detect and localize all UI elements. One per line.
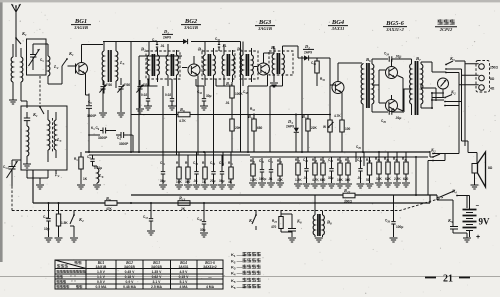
- capacitor C8: [86, 94, 97, 119]
- coil L6: [93, 166, 104, 189]
- svg-text:.01: .01: [268, 177, 273, 181]
- wire osc: [89, 131, 133, 153]
- bank1 R8b: [227, 161, 235, 189]
- battery 9V: [463, 196, 491, 242]
- wire AGC line: [131, 114, 330, 116]
- label BG3: [255, 19, 275, 31]
- svg-text:BG2: BG2: [184, 18, 198, 25]
- svg-text:30μ: 30μ: [328, 176, 334, 180]
- svg-text:″ ″: ″ ″: [70, 275, 76, 279]
- ground under T1: [9, 100, 17, 104]
- bank4 R26: [402, 152, 410, 187]
- svg-text:30μ: 30μ: [206, 94, 212, 98]
- detector transformer B5: [269, 46, 298, 80]
- bank3 C23: [328, 157, 336, 188]
- wire verticals mid: [131, 42, 364, 167]
- svg-text:4K: 4K: [228, 180, 233, 184]
- tuning gang C1-2: [3, 160, 18, 186]
- svg-text:0.45 V: 0.45 V: [125, 270, 136, 274]
- svg-text:0.15 V: 0.15 V: [179, 275, 190, 279]
- capacitor C16: [43, 203, 53, 242]
- bank1 C14: [218, 161, 226, 189]
- bank3 R19: [319, 157, 327, 188]
- IF transformer B2: [146, 42, 180, 87]
- svg-text:0.02: 0.02: [165, 93, 171, 97]
- bank1 C12: [193, 161, 201, 189]
- transistor BG4: [330, 63, 362, 120]
- svg-text:21: 21: [443, 274, 453, 285]
- svg-text:.01: .01: [357, 176, 362, 180]
- resistor R16e: [340, 120, 351, 152]
- svg-text:1.2K: 1.2K: [295, 178, 302, 182]
- svg-text:2AP9: 2AP9: [304, 51, 312, 55]
- legend K3: [231, 265, 261, 271]
- svg-text:.01μ: .01μ: [395, 116, 401, 120]
- legend K5: [231, 278, 261, 284]
- capacitor C7: [87, 155, 102, 170]
- resistor R11: [315, 58, 319, 86]
- bank1 R5: [175, 161, 183, 189]
- svg-text:1K: 1K: [202, 180, 207, 184]
- diode D2: [298, 46, 330, 61]
- svg-text:4 MA: 4 MA: [206, 285, 215, 289]
- resistor R9h: [105, 196, 117, 211]
- svg-text:0.5 V: 0.5 V: [97, 280, 106, 284]
- diode D1: [183, 39, 188, 44]
- svg-text:100μ: 100μ: [396, 225, 403, 229]
- svg-text:22K: 22K: [311, 126, 318, 130]
- svg-text:0.18 V: 0.18 V: [125, 275, 136, 279]
- bank4 R23: [375, 152, 383, 187]
- resistor R12: [248, 114, 263, 152]
- svg-text:3AG1B: 3AG1B: [257, 26, 272, 31]
- transistor BG6: [379, 85, 403, 112]
- switch K2 lower: [428, 148, 459, 196]
- bank2 C21: [267, 158, 275, 187]
- svg-text:3.1 V: 3.1 V: [153, 280, 162, 284]
- ground speaker: [471, 185, 479, 189]
- svg-text:680: 680: [320, 178, 326, 182]
- wire jacks: [455, 61, 479, 105]
- capacitor C15m: [200, 86, 212, 110]
- bank3 R20: [336, 157, 344, 188]
- legend K1: [231, 252, 261, 258]
- jack panel: [476, 61, 498, 93]
- rail y203: [33, 170, 430, 203]
- svg-text:4 MA: 4 MA: [179, 285, 188, 289]
- wire det to vol: [329, 58, 331, 120]
- svg-text:30μ: 30μ: [219, 179, 225, 183]
- capacitor C9: [88, 114, 110, 140]
- wire IF feeds: [163, 82, 231, 166]
- svg-text:4Ω: 4Ω: [490, 87, 495, 91]
- svg-text:BG5-6: BG5-6: [385, 20, 404, 27]
- legend K2: [231, 258, 261, 264]
- wire gang top: [33, 44, 48, 56]
- svg-text:2.2K: 2.2K: [394, 177, 401, 181]
- label BG4: [328, 19, 348, 31]
- svg-text:2AP9: 2AP9: [286, 125, 294, 129]
- value labels texture: [141, 61, 362, 150]
- svg-text:4.7K: 4.7K: [334, 114, 341, 118]
- switch K1 mid: [48, 51, 74, 84]
- resistor R4: [55, 203, 69, 242]
- test-point table: [55, 260, 223, 289]
- switch K3: [445, 56, 455, 73]
- output transformer B7: [404, 56, 436, 115]
- transistor BG3: [254, 53, 274, 86]
- junction dots rails: [48, 114, 381, 205]
- svg-text:BG4: BG4: [331, 19, 345, 26]
- svg-text:3AX31×2: 3AX31×2: [203, 265, 217, 269]
- svg-text:10K: 10K: [337, 178, 344, 182]
- legend K6: [231, 284, 261, 290]
- coil L1b in box: [23, 112, 31, 168]
- lower shield box: [21, 106, 67, 170]
- capacitor C10t: [152, 38, 165, 51]
- resistor R1: [74, 152, 88, 189]
- label BG5-6: [383, 20, 407, 32]
- wire bundle down: [459, 105, 468, 154]
- trimmer C6: [117, 78, 130, 117]
- svg-text:100: 100: [345, 127, 351, 131]
- transistor BG2: [182, 56, 200, 86]
- svg-text:9V: 9V: [479, 217, 491, 227]
- svg-text:.01: .01: [303, 176, 308, 180]
- svg-text:″ ″: ″ ″: [71, 280, 76, 284]
- capacitor C18: [197, 203, 208, 237]
- svg-text:8Ω: 8Ω: [490, 77, 495, 81]
- bank1 R7: [201, 161, 209, 189]
- svg-text:3AG1B: 3AG1B: [96, 265, 107, 269]
- transistor BG1: [68, 45, 104, 96]
- diode D3: [286, 115, 299, 153]
- svg-text:3AG1B: 3AG1B: [73, 25, 88, 30]
- svg-text:30μ: 30μ: [200, 228, 206, 232]
- capacitor C16t: [215, 37, 227, 51]
- transformer T1 antenna coil: [11, 44, 23, 101]
- resistor R9m: [226, 81, 243, 119]
- label BG1: [71, 18, 91, 30]
- scan edge top: [0, 0, 500, 2]
- resistor R17h: [176, 196, 192, 211]
- svg-text:.01: .01: [225, 101, 230, 105]
- wire T1 to box: [21, 101, 27, 108]
- driver transformer B6: [361, 57, 379, 152]
- page rule: [0, 276, 500, 278]
- svg-text:BG3: BG3: [258, 19, 272, 26]
- svg-text:0.62 V: 0.62 V: [152, 275, 163, 279]
- capacitor C24: [372, 52, 404, 62]
- svg-text:10μ: 10μ: [44, 227, 50, 231]
- svg-text:.04: .04: [193, 179, 198, 183]
- wire C1-2 top: [12, 159, 21, 161]
- switch K2 upper: [432, 90, 462, 107]
- bank3 C22: [303, 157, 311, 188]
- resistor R22 hor: [343, 188, 355, 204]
- svg-text:360: 360: [185, 180, 191, 184]
- bank3 R21: [344, 157, 352, 188]
- svg-text:W: W: [323, 125, 326, 129]
- svg-text:5.1 V: 5.1 V: [180, 280, 189, 284]
- coil L3b in box: [48, 110, 62, 162]
- svg-text:30μ: 30μ: [160, 179, 166, 183]
- capacitor C25: [372, 95, 404, 124]
- resistor R14: [302, 114, 318, 152]
- svg-text:62K: 62K: [385, 177, 392, 181]
- rail y195: [131, 194, 437, 196]
- wire battery gnd: [461, 233, 467, 238]
- bank3 R18: [311, 157, 319, 188]
- svg-text:1K: 1K: [83, 177, 88, 181]
- transformer B8: [313, 195, 332, 242]
- bank2 R15b: [276, 158, 284, 187]
- volume pot R13: [323, 120, 334, 152]
- svg-text:20μ: 20μ: [210, 179, 216, 183]
- bank2 C20: [258, 158, 266, 187]
- capacitor C4: [116, 132, 129, 146]
- ground lowbox: [36, 185, 44, 189]
- wire k4 feed: [415, 156, 417, 196]
- svg-text:BG1: BG1: [74, 18, 87, 25]
- switch K1 top: [15, 31, 27, 44]
- svg-text:2AP9: 2AP9: [163, 36, 171, 40]
- IF transformer B4: [240, 42, 258, 87]
- rail mid A: [85, 151, 430, 153]
- trimmer C7t: [136, 80, 149, 113]
- speaker BL: [468, 152, 493, 187]
- rail mid C: [250, 156, 428, 158]
- svg-text:1.35 V: 1.35 V: [152, 270, 163, 274]
- svg-text:3AG1B: 3AG1B: [124, 265, 135, 269]
- svg-text:1.2K: 1.2K: [250, 178, 257, 182]
- svg-text:0.48 MA: 0.48 MA: [123, 285, 136, 289]
- switch K4: [437, 189, 467, 209]
- page number 21: [425, 274, 470, 285]
- svg-text:7/30: 7/30: [106, 83, 112, 87]
- resistor R27: [271, 211, 292, 233]
- switch K2 mid: [248, 211, 257, 231]
- svg-text:3300P: 3300P: [98, 136, 108, 140]
- svg-text:47K: 47K: [277, 178, 284, 182]
- transistor BG5: [379, 59, 403, 85]
- label D2: [303, 44, 314, 55]
- bank1 C10e: [159, 161, 167, 189]
- svg-text:3AG1B: 3AG1B: [183, 25, 198, 30]
- svg-text:4.5 V: 4.5 V: [180, 270, 189, 274]
- resistor R22b: [366, 157, 374, 188]
- IF transformer B3: [202, 42, 235, 87]
- svg-text:3AG1B: 3AG1B: [151, 265, 162, 269]
- svg-text:100μ: 100μ: [259, 177, 266, 181]
- scan edge left: [0, 0, 3, 262]
- svg-text:470: 470: [271, 225, 277, 229]
- svg-text:51: 51: [366, 178, 370, 182]
- bank1 R6: [184, 161, 192, 189]
- svg-text:1.1 V: 1.1 V: [97, 275, 106, 279]
- svg-text:0.9 V: 0.9 V: [126, 280, 135, 284]
- svg-text:1.5K: 1.5K: [61, 221, 68, 225]
- capacitor C29: [385, 195, 403, 242]
- jack K5: [437, 195, 461, 233]
- ground battery: [463, 238, 471, 242]
- rail mid B: [89, 154, 250, 156]
- svg-text:680: 680: [257, 126, 263, 130]
- label D1: [162, 29, 173, 40]
- svg-text:620: 620: [403, 177, 409, 181]
- switch K1 in box: [32, 76, 44, 118]
- bank4 R25: [393, 152, 401, 187]
- capacitor C26: [357, 157, 365, 188]
- jack K6: [281, 211, 302, 243]
- capacitor C13m: [144, 79, 152, 110]
- svg-text:2CP12: 2CP12: [439, 27, 453, 32]
- svg-text:7/30: 7/30: [124, 83, 130, 87]
- dashed gang link: [11, 186, 13, 211]
- svg-text:2.5 MA: 2.5 MA: [151, 285, 162, 289]
- svg-text:+: +: [476, 234, 480, 241]
- capacitor C14m: [168, 79, 176, 110]
- svg-text:8Ω: 8Ω: [488, 166, 493, 170]
- label BG2: [181, 18, 201, 30]
- svg-text:1.5 V: 1.5 V: [97, 270, 106, 274]
- svg-text:250Ω: 250Ω: [490, 66, 498, 70]
- svg-text:0.5 MA: 0.5 MA: [96, 285, 107, 289]
- trimmer C5: [99, 80, 112, 117]
- svg-text:3AX31: 3AX31: [179, 265, 189, 269]
- coil L2: [48, 56, 62, 84]
- svg-text:−: −: [476, 204, 480, 210]
- junction dots B7: [431, 72, 446, 109]
- svg-text:.01: .01: [160, 44, 165, 48]
- switch K2 left: [70, 211, 84, 243]
- wire top rail: [103, 41, 241, 43]
- phone jack J1: [438, 78, 449, 97]
- tuning gang C1-1 box: [27, 39, 47, 75]
- bank1 C13: [210, 161, 218, 189]
- bank4 R24: [384, 152, 392, 187]
- wire lowbox leads: [27, 170, 56, 184]
- bank3 R17: [294, 157, 302, 188]
- ground B5: [270, 83, 278, 87]
- svg-text:10K: 10K: [176, 180, 183, 184]
- label rectifier: [435, 19, 457, 32]
- osc coil L3 L4: [102, 42, 125, 94]
- svg-text:.01: .01: [222, 44, 227, 48]
- wire BG56 collectors: [403, 78, 411, 111]
- bank2 R14b: [249, 158, 257, 187]
- svg-text:360: 360: [345, 178, 351, 182]
- svg-text:3300P: 3300P: [119, 142, 129, 146]
- svg-text:4.7K: 4.7K: [179, 119, 186, 123]
- svg-text:3AX31×2: 3AX31×2: [385, 27, 404, 32]
- resistor R10m: [230, 119, 242, 152]
- antenna: [12, 4, 21, 57]
- capacitor C17: [143, 203, 155, 235]
- svg-text:.01μ: .01μ: [395, 55, 401, 59]
- svg-text:33K: 33K: [376, 177, 383, 181]
- dashed AGC rail: [12, 198, 443, 211]
- resistor R8 agc: [178, 107, 190, 123]
- svg-text:0.02: 0.02: [141, 93, 147, 97]
- svg-text:4.7K: 4.7K: [312, 178, 319, 182]
- legend K4: [231, 271, 261, 277]
- svg-text:3AX31: 3AX31: [331, 26, 345, 31]
